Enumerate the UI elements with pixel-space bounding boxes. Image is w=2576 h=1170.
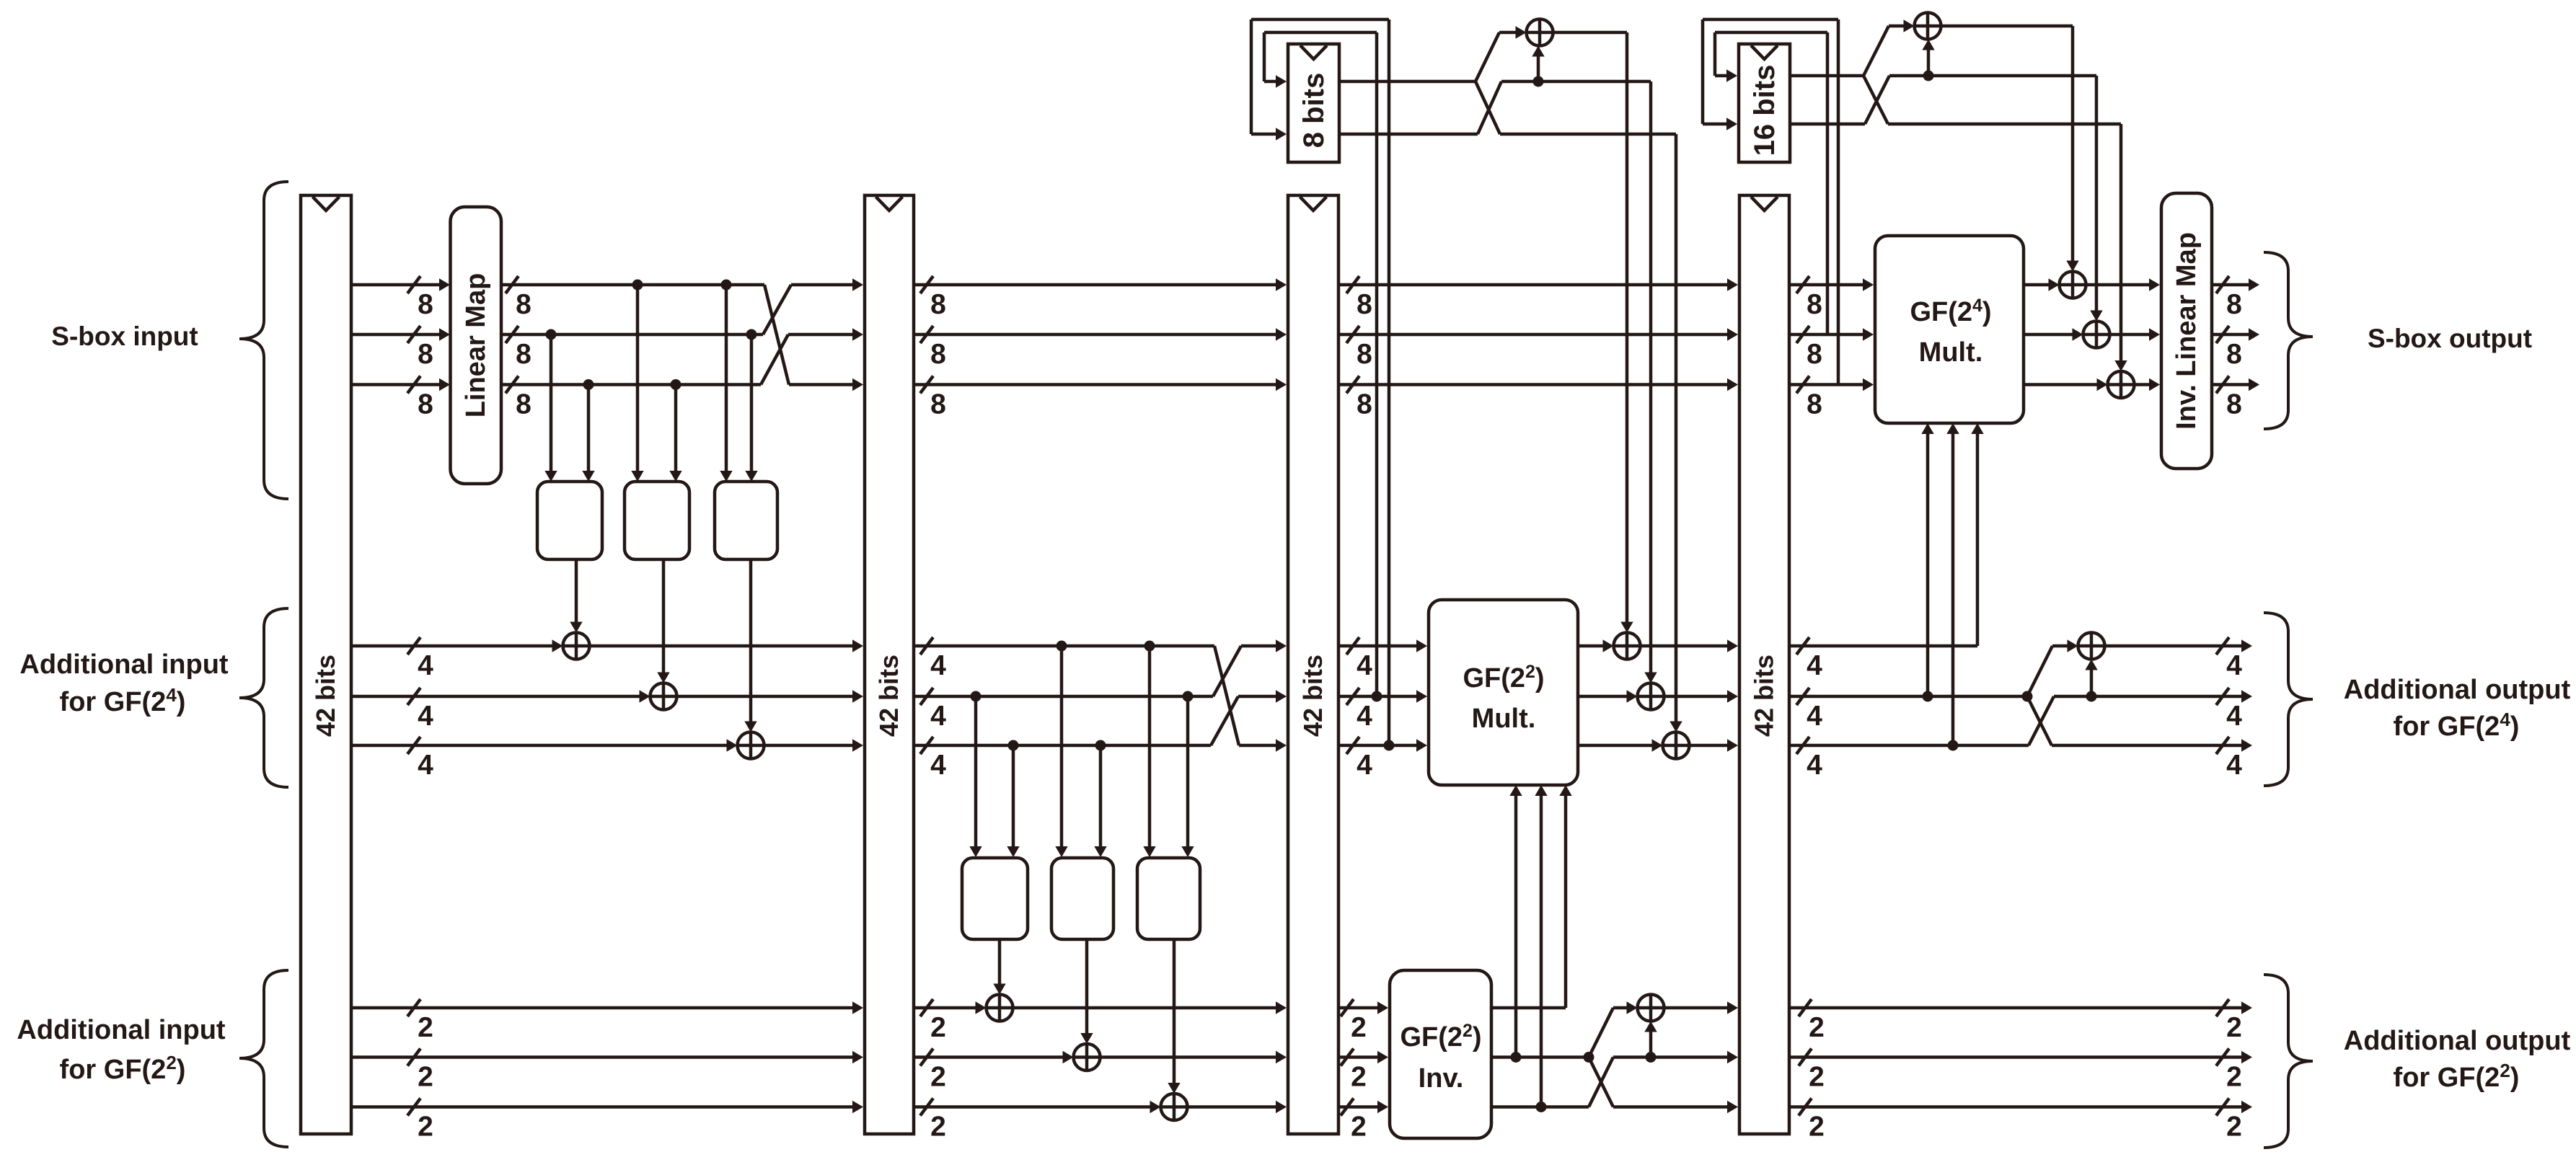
- svg-text:8: 8: [1807, 389, 1822, 420]
- svg-text:8: 8: [1357, 389, 1372, 420]
- svg-text:2: 2: [1809, 1012, 1825, 1043]
- svg-text:8: 8: [516, 289, 531, 320]
- svg-text:8: 8: [418, 289, 433, 320]
- svg-text:8: 8: [1357, 339, 1372, 370]
- svg-text:Inv. Linear Map: Inv. Linear Map: [2171, 232, 2202, 430]
- svg-text:8: 8: [930, 339, 946, 370]
- svg-text:8: 8: [2226, 289, 2242, 320]
- svg-text:4: 4: [1807, 650, 1822, 681]
- svg-text:4: 4: [930, 650, 946, 681]
- svg-text:4: 4: [1357, 750, 1372, 781]
- svg-text:42 bits: 42 bits: [311, 655, 340, 737]
- svg-text:2: 2: [1351, 1012, 1367, 1043]
- svg-text:42 bits: 42 bits: [874, 655, 904, 737]
- svg-text:8: 8: [2226, 339, 2242, 370]
- svg-text:8: 8: [1807, 289, 1822, 320]
- svg-text:16 bits: 16 bits: [1749, 65, 1781, 156]
- svg-text:2: 2: [2226, 1062, 2242, 1093]
- svg-text:8: 8: [1807, 339, 1822, 370]
- svg-text:42 bits: 42 bits: [1298, 655, 1328, 737]
- svg-text:8: 8: [1357, 289, 1372, 320]
- svg-text:2: 2: [930, 1062, 946, 1093]
- svg-text:8 bits: 8 bits: [1298, 73, 1330, 148]
- svg-text:8: 8: [516, 389, 531, 420]
- svg-text:Additional output: Additional output: [2344, 675, 2571, 705]
- svg-text:4: 4: [930, 701, 946, 732]
- svg-text:42 bits: 42 bits: [1750, 655, 1779, 737]
- svg-text:4: 4: [1357, 650, 1372, 681]
- svg-text:Mult.: Mult.: [1472, 704, 1536, 734]
- svg-text:2: 2: [418, 1012, 433, 1043]
- svg-text:Linear Map: Linear Map: [461, 273, 491, 418]
- svg-text:4: 4: [418, 750, 433, 781]
- svg-text:4: 4: [1807, 750, 1822, 781]
- svg-text:2: 2: [2226, 1012, 2242, 1043]
- svg-text:S-box output: S-box output: [2368, 324, 2532, 353]
- svg-text:2: 2: [1351, 1062, 1367, 1093]
- svg-text:2: 2: [930, 1112, 946, 1143]
- svg-text:2: 2: [1809, 1062, 1825, 1093]
- svg-text:Mult.: Mult.: [1919, 337, 1983, 368]
- svg-text:Additional input: Additional input: [17, 1015, 226, 1045]
- svg-text:Additional output: Additional output: [2344, 1026, 2571, 1056]
- svg-text:4: 4: [418, 701, 433, 732]
- svg-text:4: 4: [2226, 701, 2242, 732]
- svg-text:8: 8: [516, 339, 531, 370]
- svg-text:4: 4: [2226, 750, 2242, 781]
- svg-text:Additional input: Additional input: [19, 650, 229, 680]
- svg-text:8: 8: [418, 389, 433, 420]
- svg-text:2: 2: [418, 1062, 433, 1093]
- svg-text:4: 4: [1807, 701, 1822, 732]
- svg-text:2: 2: [418, 1112, 433, 1143]
- svg-text:4: 4: [930, 750, 946, 781]
- svg-text:4: 4: [2226, 650, 2242, 681]
- svg-text:2: 2: [2226, 1112, 2242, 1143]
- svg-text:8: 8: [418, 339, 433, 370]
- svg-text:2: 2: [930, 1012, 946, 1043]
- svg-text:8: 8: [930, 289, 946, 320]
- svg-text:S-box input: S-box input: [51, 322, 198, 351]
- svg-text:8: 8: [930, 389, 946, 420]
- svg-text:2: 2: [1351, 1112, 1367, 1143]
- svg-text:4: 4: [1357, 701, 1372, 732]
- svg-text:Inv.: Inv.: [1419, 1063, 1464, 1094]
- svg-text:2: 2: [1809, 1112, 1825, 1143]
- svg-text:4: 4: [418, 650, 433, 681]
- svg-text:8: 8: [2226, 389, 2242, 420]
